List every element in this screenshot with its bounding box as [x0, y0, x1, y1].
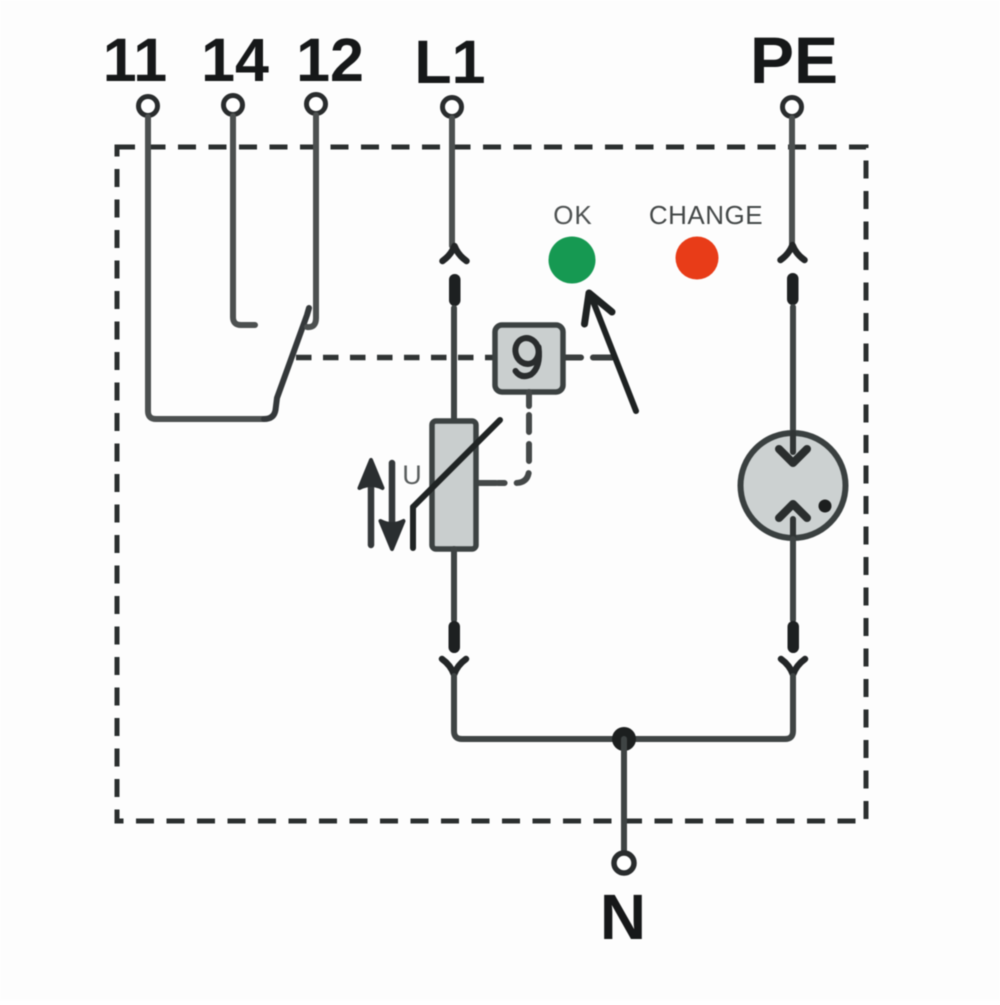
svg-text:CHANGE: CHANGE: [649, 200, 763, 230]
disconnect capsule lower left: [449, 621, 461, 653]
LED CHANGE red: [676, 237, 719, 280]
varistor thermal stub: [477, 480, 496, 486]
junction node: [612, 727, 636, 751]
varistor body: [432, 421, 476, 549]
disconnect capsule PE: [787, 273, 799, 305]
linkage stub right of thermal device: [563, 355, 612, 361]
up arrow: [368, 478, 375, 545]
terminal N: [614, 853, 634, 873]
svg-text:N: N: [600, 881, 646, 953]
disconnect chevron lower left: [442, 659, 466, 675]
spark gap (gas discharge tube): [741, 433, 846, 538]
terminal L1: [443, 98, 462, 117]
wire junction to N terminal: [621, 739, 627, 852]
thermal linkage stub below box: [526, 392, 532, 406]
terminal 12: [307, 95, 326, 114]
spark gap top electrode arrow: [790, 433, 796, 452]
disconnect chevron PE: [781, 245, 805, 260]
svg-text:L1: L1: [414, 28, 485, 96]
disconnect capsule L1: [449, 274, 461, 306]
svg-text:OK: OK: [553, 200, 593, 230]
wire 11 down and along bottom to switch pivot: [148, 117, 264, 419]
device outline (dashed enclosure): [117, 147, 866, 821]
wire varistor to lower capsule: [451, 549, 457, 620]
disconnect capsule lower right: [788, 621, 800, 653]
wire L1 upper segment: [449, 118, 455, 246]
terminal 11: [139, 97, 158, 116]
terminal 14: [224, 96, 243, 115]
spark gap gas dot: [819, 500, 832, 513]
disconnect chevron L1: [443, 246, 467, 261]
LED OK green: [549, 237, 596, 284]
svg-text:12: 12: [296, 26, 364, 94]
thermal disconnect device box: [495, 325, 563, 392]
wire 12 with curved end to blade tip: [307, 115, 316, 327]
wire L1 to varistor: [451, 308, 457, 421]
mechanical linkage dashed (switch to thermal device): [296, 355, 494, 361]
wire lower right to junction: [634, 676, 793, 739]
terminal PE: [783, 98, 802, 117]
varistor diagonal foot: [410, 507, 416, 548]
spark gap bottom electrode arrow: [790, 519, 796, 538]
wire spark gap to lower capsule: [790, 539, 796, 620]
indicator arrow to OK LED: [591, 296, 636, 411]
wire PE upper: [789, 118, 795, 245]
varistor diagonal: [413, 420, 500, 507]
dashed link box to varistor: [498, 415, 529, 483]
disconnect chevron lower right: [781, 659, 805, 675]
svg-text:U: U: [402, 460, 422, 490]
svg-text:11: 11: [103, 26, 168, 94]
wire 14 with contact hook: [233, 116, 255, 325]
svg-text:14: 14: [201, 26, 269, 94]
down arrow: [389, 463, 396, 530]
svg-text:PE: PE: [750, 23, 838, 97]
switch blade (pivot to contact near 12): [264, 308, 309, 419]
wire PE to spark gap: [790, 307, 796, 432]
wire lower left to junction: [454, 676, 614, 739]
thermal symbol 9: [513, 336, 542, 377]
